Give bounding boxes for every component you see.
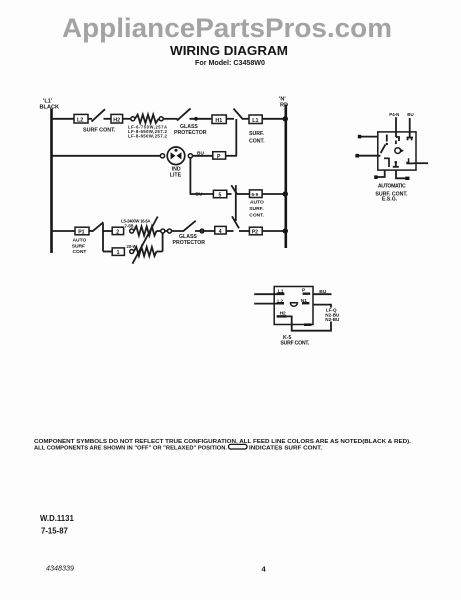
relay coil circle: [395, 148, 401, 154]
svg-text:LITE: LITE: [170, 173, 182, 179]
svg-text:LF-8-650W,257.2: LF-8-650W,257.2: [128, 134, 168, 139]
junction row3/N rail: [283, 191, 288, 196]
bottom-left hook mark: [384, 158, 389, 167]
svg-text:H2: H2: [113, 118, 120, 124]
wire branch top: [103, 230, 112, 232]
svg-text:BU: BU: [197, 151, 204, 157]
svg-text:L2: L2: [77, 118, 83, 124]
wire row2 (indicator branch): [52, 155, 161, 157]
pin L2 wire: [254, 303, 284, 305]
svg-text:SURF.: SURF.: [249, 206, 264, 212]
svg-text:COMPONENT SYMBOLS DO NOT REFLE: COMPONENT SYMBOLS DO NOT REFLECT TRUE CO…: [34, 439, 411, 445]
terminal 4: [215, 226, 226, 234]
wire rejoin vertical: [162, 231, 164, 252]
svg-text:AppliancePartsPros.com: AppliancePartsPros.com: [62, 13, 392, 43]
wire: [226, 118, 234, 120]
K-5 surface control unit box: [274, 287, 313, 325]
pin N1 wire: [302, 302, 309, 304]
svg-text:BU: BU: [407, 112, 413, 117]
dome mark inside: [290, 303, 297, 307]
left rail L1 (black feed): [50, 109, 53, 254]
terminal 5: [213, 190, 226, 197]
wire: [89, 230, 93, 232]
switch SW6 blade: [93, 222, 104, 231]
wire: [104, 118, 112, 120]
node: [131, 117, 135, 121]
svg-text:ALL COMPONENTS ARE SHOWN IN "O: ALL COMPONENTS ARE SHOWN IN "OFF" OR "RE…: [34, 445, 227, 451]
svg-text:N2-BU: N2-BU: [325, 317, 340, 322]
note surf cont symbol: [229, 444, 248, 449]
wire: [227, 193, 232, 195]
wire: [239, 230, 249, 232]
terminal 1: [112, 248, 124, 256]
indicator lamp IND LITE: [167, 147, 185, 165]
svg-text:7-15-87: 7-15-87: [41, 527, 68, 536]
switch SW1 blade: [92, 109, 106, 121]
switch SW3 blade: [234, 109, 244, 120]
svg-text:CONT.: CONT.: [249, 213, 264, 219]
wire row3 right: [262, 193, 286, 195]
node junction to row3: [188, 154, 192, 158]
svg-text:5: 5: [219, 193, 222, 199]
wire: [243, 118, 250, 120]
right pin terminal: [406, 158, 408, 162]
wire pin P4-N: [395, 117, 397, 137]
wire row3 left: [190, 193, 214, 195]
wire branch bottom: [103, 251, 112, 253]
wire row4 mid: [163, 230, 184, 232]
node: [159, 117, 163, 121]
wire: [190, 118, 213, 120]
svg-text:CONT: CONT: [73, 249, 87, 255]
node: [200, 229, 204, 233]
bottom-right bar: [304, 323, 312, 326]
terminal 5-9: [250, 190, 263, 198]
svg-text:P2: P2: [252, 230, 258, 236]
svg-text:For Model: C3458W0: For Model: C3458W0: [195, 60, 265, 67]
wire: [237, 193, 250, 195]
wire pin BU: [409, 118, 411, 137]
pivot dot: [194, 117, 198, 121]
wire H2 to bottom: [287, 316, 331, 330]
switch SW4 blade: [231, 185, 237, 194]
svg-text:E.S.G.: E.S.G.: [382, 197, 398, 203]
junction row1/N rail: [283, 116, 288, 121]
node: [130, 250, 134, 254]
svg-text:2: 2: [116, 229, 119, 235]
resistor element 1: [134, 247, 157, 256]
svg-text:H1: H1: [215, 118, 222, 124]
wire bottom pin N: [396, 170, 406, 178]
terminal L1: [249, 115, 262, 124]
svg-text:L1: L1: [252, 118, 258, 124]
svg-text:SURF CONT.: SURF CONT.: [280, 340, 309, 346]
svg-text:SURF CONT.: SURF CONT.: [83, 128, 116, 134]
wire row4 right: [262, 230, 286, 232]
svg-text:PROTECTOR: PROTECTOR: [173, 240, 206, 246]
wire from SW3 down to P: [235, 119, 237, 156]
node: [160, 154, 164, 158]
svg-text:BU: BU: [319, 289, 326, 295]
svg-text:BU: BU: [196, 191, 203, 197]
terminal H1: [212, 115, 226, 124]
svg-text:WIRING DIAGRAM: WIRING DIAGRAM: [170, 44, 288, 58]
automatic surface control unit box: [378, 132, 416, 170]
terminal L2: [74, 114, 88, 123]
wire right pin: [414, 162, 429, 164]
svg-text:AUTOMATIC: AUTOMATIC: [378, 184, 406, 190]
svg-text:4348339: 4348339: [46, 564, 74, 573]
wire split vertical: [102, 224, 104, 252]
right rail N (red feed): [284, 105, 287, 249]
pin P wire / net BU: [303, 293, 311, 295]
switch SW7 blade: [183, 221, 196, 232]
terminal P: [213, 152, 226, 159]
svg-text:CONT.: CONT.: [249, 139, 265, 145]
wire SW4 to SW5: [235, 185, 237, 221]
svg-text:P4-N: P4-N: [389, 112, 399, 117]
svg-text:PROTECTOR: PROTECTOR: [174, 130, 207, 136]
wire P to SW3: [226, 155, 237, 157]
node: [161, 229, 165, 233]
svg-text:SURF.: SURF.: [249, 131, 265, 137]
wire: [226, 230, 233, 232]
svg-text:BLACK: BLACK: [40, 105, 60, 111]
pin H2 bar: [277, 315, 287, 317]
wire: [163, 118, 177, 120]
wire bottom pin L: [377, 170, 385, 177]
wire row2 to row3: [189, 157, 191, 194]
terminal P1: [75, 227, 89, 235]
svg-text:AUTO: AUTO: [250, 200, 264, 206]
node: [168, 229, 172, 233]
wire: [195, 230, 215, 232]
node: [130, 229, 134, 233]
wire row4 left: [52, 230, 76, 232]
svg-text:4: 4: [219, 229, 222, 235]
svg-text:W.D.1131: W.D.1131: [40, 514, 74, 523]
resistor glass protector (row1): [135, 115, 159, 123]
terminal 2: [112, 227, 123, 234]
svg-text:INDICATES SURF CONT.: INDICATES SURF CONT.: [249, 445, 322, 451]
pin L1 wire: [254, 293, 284, 295]
svg-text:P: P: [217, 154, 221, 160]
wire: [123, 118, 131, 120]
junction row4/N rail: [283, 228, 288, 233]
resistor element 2: [134, 227, 157, 236]
variable slash through elements: [133, 217, 158, 264]
svg-text:AUTO: AUTO: [73, 238, 87, 244]
svg-text:1: 1: [117, 250, 120, 256]
wire row1 right: [262, 118, 286, 120]
switch SW2 blade: [177, 108, 191, 120]
switch SW5 blade: [232, 216, 239, 228]
wire: [193, 155, 213, 157]
bottom-center terminal: [395, 161, 398, 164]
wire left pin Y: [359, 155, 381, 157]
terminal P2: [249, 227, 262, 235]
svg-text:P1: P1: [78, 230, 84, 236]
svg-text:SURF: SURF: [72, 243, 85, 249]
svg-text:5-9: 5-9: [252, 192, 259, 197]
terminal mark inside top-left: [386, 135, 388, 142]
wire left pin B: [361, 136, 378, 138]
terminal H2: [111, 114, 123, 123]
wire row1 left: [52, 118, 75, 120]
wire: [88, 118, 92, 120]
relay blade inside: [381, 145, 386, 153]
